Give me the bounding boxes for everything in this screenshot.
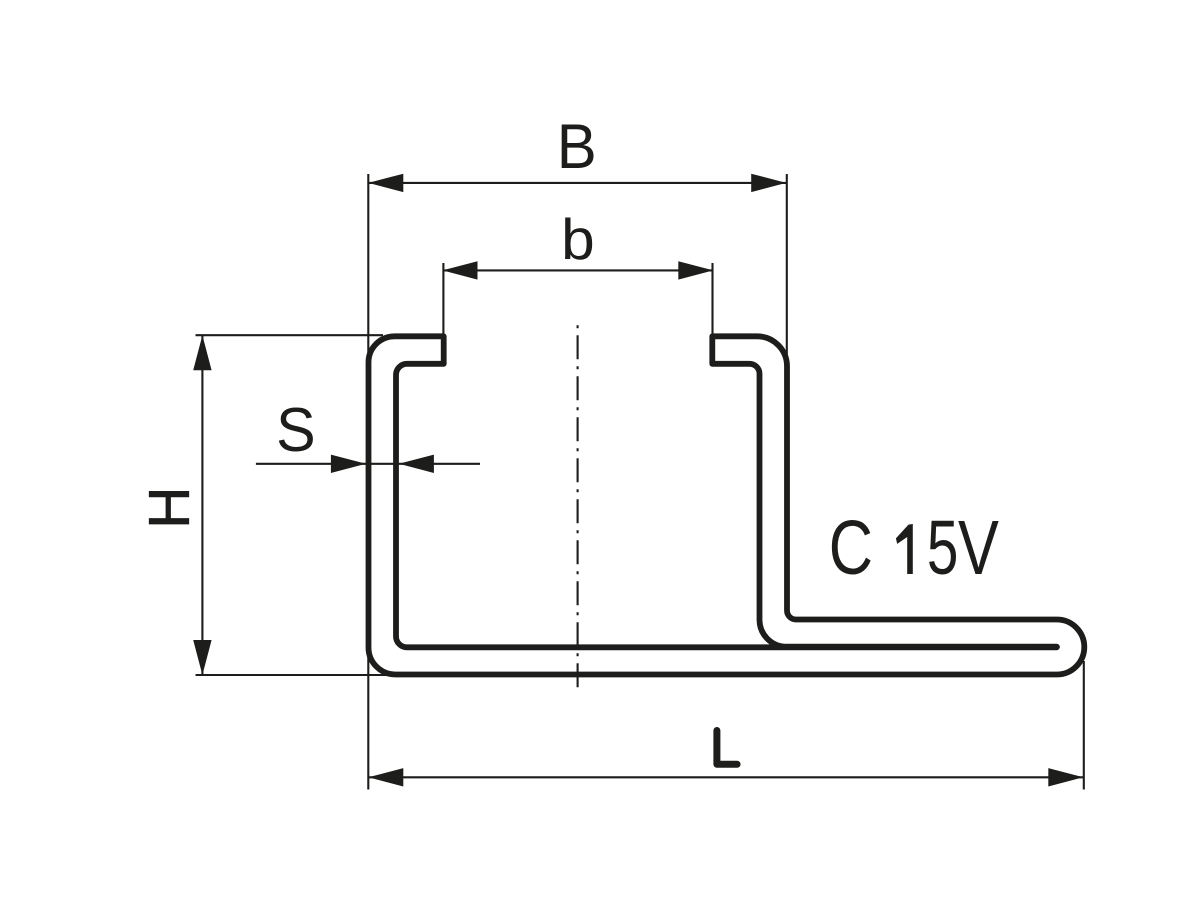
dimension L extension line right xyxy=(1083,661,1085,790)
label L xyxy=(717,731,737,765)
dimension B extension line right xyxy=(786,174,788,357)
dimension B line xyxy=(368,182,786,184)
profile outline C 15V sheet cross-section xyxy=(369,336,1085,674)
dimension S arrow right xyxy=(399,455,434,473)
svg-text:5: 5 xyxy=(927,506,959,591)
fold end round cap xyxy=(1040,644,1057,650)
svg-text:S: S xyxy=(276,395,315,465)
centerline (dash-dot) xyxy=(577,325,579,694)
svg-text:V: V xyxy=(958,504,999,590)
dimension L extension line left xyxy=(367,648,369,790)
dimension H extension line bottom xyxy=(196,674,397,676)
svg-text:b: b xyxy=(561,208,595,271)
dimension b extension line right xyxy=(711,263,713,338)
dimension H extension line top xyxy=(196,334,384,336)
dimension b extension line left xyxy=(442,263,444,338)
dimension B arrow left xyxy=(368,174,403,192)
dimension b arrow right xyxy=(678,261,713,279)
dimension L line xyxy=(368,776,1083,778)
dimension S arrow left xyxy=(331,455,366,473)
dimension L arrow right xyxy=(1048,768,1083,786)
svg-text:B: B xyxy=(557,112,597,183)
dimension S line xyxy=(256,463,480,465)
dimension B arrow right xyxy=(751,174,786,192)
dimension L arrow left xyxy=(368,768,403,786)
dimension b line xyxy=(443,269,712,271)
svg-text:C: C xyxy=(829,504,873,590)
svg-text:H: H xyxy=(138,487,202,529)
dimension b arrow left xyxy=(443,261,478,279)
dimension H arrow bottom xyxy=(193,640,211,675)
dimension H line xyxy=(201,335,203,675)
dimension B extension line left xyxy=(367,174,369,362)
dimension H arrow top xyxy=(193,335,211,370)
